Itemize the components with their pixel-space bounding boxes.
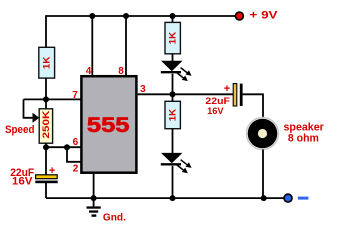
wire R3 to LED2 — [172, 129, 174, 154]
wire pin 1 from chip bottom to ground rail — [93, 172, 95, 198]
node junction pot bottom — [43, 144, 49, 150]
svg-text:+: + — [49, 165, 55, 177]
svg-text:Speed: Speed — [5, 124, 35, 136]
node junction pin2 tap — [64, 144, 70, 150]
svg-text:1K: 1K — [168, 31, 178, 44]
label Speed — [5, 124, 35, 136]
ground symbol — [87, 198, 101, 217]
svg-text:8 ohm: 8 ohm — [288, 133, 319, 145]
pin label 4 — [86, 66, 92, 77]
LED D1 (anode triangle) — [161, 61, 183, 71]
capacitor 22uF 16V (left, electrolytic) positive plate — [36, 175, 58, 179]
wire left drop from rail to R1 — [45, 15, 47, 47]
svg-text:16V: 16V — [12, 175, 33, 187]
svg-text:16V: 16V — [207, 106, 224, 117]
node junction LED2 on ground rail — [170, 195, 176, 201]
wire pot wiper feedback (left loop down) — [24, 99, 34, 117]
terminal negative (blue) — [283, 193, 293, 203]
wire R2 to LED1 — [172, 54, 174, 62]
label + of C2 — [224, 83, 230, 95]
wiper arrowhead into potentiometer — [33, 113, 40, 123]
wire junction down to capacitor C1 — [45, 147, 47, 175]
wire pin 7 row — [24, 98, 82, 100]
node junction pin4 on rail — [89, 13, 95, 19]
svg-text:speaker: speaker — [284, 121, 325, 133]
svg-text:+: + — [224, 83, 230, 95]
svg-text:555: 555 — [87, 113, 130, 137]
svg-text:250K: 250K — [41, 110, 51, 139]
pin label 2 — [73, 164, 79, 175]
node junction LED branch on rail — [170, 13, 176, 19]
wire pin3 junction to R3 — [172, 94, 174, 101]
node junction speaker on ground rail — [261, 195, 267, 201]
potentiometer 250K — [39, 109, 52, 143]
wire junction down to pot top — [45, 99, 47, 109]
IC 555 body — [81, 76, 136, 173]
svg-text:3: 3 — [140, 84, 146, 95]
wire C2 to speaker top — [243, 94, 263, 118]
wire R1 bottom to pin7 junction — [45, 78, 47, 100]
label 22uF 16V (right) — [205, 96, 230, 117]
resistor 1K (lower right branch) — [165, 101, 180, 128]
wire C1 bottom to ground rail — [45, 183, 47, 198]
resistor 1K (top left) — [39, 47, 55, 78]
svg-text:2: 2 — [73, 164, 79, 175]
capacitor C1 negative plate — [35, 181, 57, 184]
pin label 8 — [118, 66, 124, 77]
label + of C1 — [49, 165, 55, 177]
svg-text:+ 9V: + 9V — [250, 10, 279, 22]
label + 9V — [250, 10, 279, 22]
wire pin 4 from rail to chip — [91, 16, 93, 76]
svg-text:4: 4 — [86, 66, 92, 77]
wire top power rail — [46, 15, 239, 17]
wire pin 3 row — [137, 93, 234, 95]
pin label 7 — [72, 90, 78, 101]
wire pin 8 from rail to chip — [125, 16, 127, 76]
wire pin 6 row — [46, 146, 81, 148]
pin label 6 — [73, 137, 79, 148]
LED D1 light emission arrows — [177, 68, 192, 82]
wire LED2 to ground rail — [172, 166, 174, 198]
pin label 3 — [140, 84, 146, 95]
wire bottom ground rail — [46, 197, 286, 199]
LED D2 cathode bar — [161, 163, 181, 165]
svg-text:1K: 1K — [168, 108, 178, 121]
capacitor C2 negative plate — [240, 84, 243, 106]
node junction on pin3 row — [170, 91, 176, 97]
LED D2 (anode triangle) — [161, 153, 183, 163]
negative lead dash (blue) — [298, 197, 309, 200]
wire LED1 to pin3 row — [172, 74, 174, 95]
svg-text:7: 7 — [72, 90, 78, 101]
speaker (8 ohm) — [247, 118, 279, 150]
resistor 1K (upper right branch) — [165, 22, 180, 53]
label speaker 8 ohm — [284, 121, 325, 144]
LED D1 cathode bar — [161, 71, 181, 73]
svg-text:8: 8 — [118, 66, 124, 77]
label 22uF 16V (left) — [10, 167, 34, 187]
node junction pin8 on rail — [123, 13, 129, 19]
node junction ground tap — [91, 195, 97, 201]
wire LED branch 1 drop from rail — [172, 16, 174, 23]
wire pot bottom to pin6 junction — [45, 143, 47, 149]
svg-text:Gnd.: Gnd. — [103, 212, 126, 224]
capacitor 22uF 16V (right, coupling) positive plate — [233, 84, 237, 106]
svg-text:6: 6 — [73, 137, 79, 148]
node junction at R1 / pin7 / pot top — [43, 96, 49, 102]
label Gnd. — [103, 212, 126, 224]
LED D2 light emission arrows — [177, 160, 192, 174]
wire speaker bottom to ground rail — [262, 150, 264, 199]
svg-text:1K: 1K — [42, 56, 52, 69]
wire pin 2 drop and row — [67, 147, 81, 162]
terminal +9V (red) — [235, 11, 245, 21]
